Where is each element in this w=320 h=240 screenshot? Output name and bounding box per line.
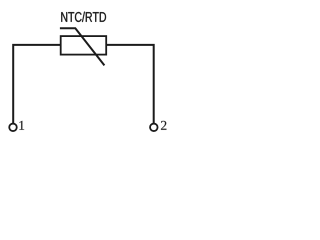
thermistor diagonal strike with top-left foot — [60, 28, 105, 65]
terminal 1 (circle) — [9, 124, 17, 132]
terminal 1 label "1" — [19, 121, 24, 130]
terminal 2 label "2" — [161, 121, 166, 130]
terminal 2 (circle) — [150, 124, 158, 132]
wire: left vertical lead, top horizontal bus, right vertical lead — [13, 45, 154, 124]
label NTC/RTD — [61, 12, 106, 22]
thermistor body (rectangle) — [61, 36, 106, 55]
